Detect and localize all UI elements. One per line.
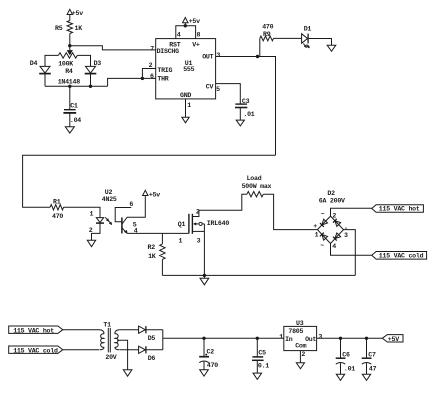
U2 pin1 label [90, 210, 94, 217]
svg-text:.01: .01 [344, 366, 355, 373]
wire secondary top to D5 [120, 329, 139, 331]
U2 emitter [122, 228, 138, 235]
pin 4 label [177, 31, 181, 38]
svg-text:2: 2 [196, 209, 200, 216]
capacitor C3 [235, 98, 255, 120]
svg-text:1K: 1K [148, 253, 156, 260]
svg-text:0.1: 0.1 [258, 362, 269, 369]
U3 com stub [300, 351, 305, 363]
pin 5 label [216, 86, 220, 93]
svg-text:1: 1 [279, 334, 283, 341]
svg-text:C2: C2 [207, 349, 215, 356]
svg-text:3: 3 [344, 232, 348, 239]
wire D5 D6 join [146, 330, 163, 350]
pin 8 label [197, 31, 201, 38]
wire R4 left to D4 [45, 55, 58, 66]
svg-text:+5v: +5v [149, 191, 160, 198]
rail junction C5 [256, 337, 259, 340]
svg-text:7805: 7805 [288, 328, 303, 335]
svg-text:R4: R4 [65, 68, 73, 75]
wire OUT corner down [258, 57, 276, 156]
power +5v (U1 supply) [183, 18, 201, 26]
svg-text:THR: THR [157, 76, 168, 83]
wire OUT loop to R1 [23, 155, 276, 207]
svg-text:115 VAC cold: 115 VAC cold [379, 253, 424, 260]
svg-text:~: ~ [321, 211, 325, 218]
ground C2 [200, 370, 209, 376]
ground U3 [296, 363, 304, 369]
svg-text:4: 4 [332, 243, 336, 250]
diode D3 [85, 60, 102, 74]
svg-text:Load: Load [247, 175, 262, 182]
ground rail wire [162, 274, 355, 276]
svg-text:+5v: +5v [72, 10, 83, 17]
svg-text:D6: D6 [148, 355, 156, 362]
wire R2 to rail [161, 259, 163, 275]
flag +5V output [382, 335, 403, 343]
power +5v (U2 collector) [143, 190, 161, 198]
svg-text:D1: D1 [304, 25, 312, 32]
capacitor C6 [336, 338, 356, 374]
svg-text:Out: Out [305, 336, 316, 343]
ground U2 LED [87, 240, 95, 246]
T1 secondary [115, 330, 120, 350]
+5 rail wire left [163, 337, 284, 339]
wire U2 LED to ground [92, 223, 101, 240]
Q1 drain lead [192, 194, 247, 216]
U3 labels [279, 320, 322, 350]
rail junction C2 [202, 337, 205, 340]
diode D4 [30, 60, 51, 74]
U1 labels [157, 41, 214, 99]
D2 diode bottom-left arm [320, 233, 328, 241]
svg-text:R9: R9 [263, 31, 271, 38]
ground Q1 source [200, 275, 209, 284]
potentiometer R4 wiper arrow [68, 46, 72, 55]
svg-text:Q1: Q1 [178, 221, 186, 228]
pin 2 label [149, 62, 153, 69]
svg-text:2: 2 [89, 227, 93, 234]
potentiometer R4 [58, 53, 81, 86]
wire CV to C3 [216, 84, 241, 104]
LED D1 [302, 25, 312, 48]
wire bridge bottom to cold flag [331, 244, 372, 256]
wire R5 to node A [69, 34, 71, 46]
svg-text:V+: V+ [192, 41, 200, 48]
svg-text:+: + [313, 223, 317, 230]
svg-text:6A 200V: 6A 200V [319, 197, 345, 204]
rail junction Q1 source [203, 274, 206, 277]
diode D5 [139, 326, 156, 342]
rail junction C6 [339, 337, 342, 340]
svg-text:115 VAC hot: 115 VAC hot [13, 327, 54, 334]
T1 value label [105, 354, 116, 361]
svg-text:470: 470 [262, 24, 273, 31]
wire R1 to U2 LED [64, 207, 100, 217]
wire R4 right to D3 [77, 55, 90, 66]
svg-text:8: 8 [197, 31, 201, 38]
diode D6 [139, 346, 156, 362]
power +5v (R5 supply) [67, 9, 83, 20]
wire D3 to node B [90, 74, 92, 87]
svg-text:470: 470 [52, 213, 63, 220]
transformer T1 label [103, 322, 111, 329]
op-amp U1 555 box [156, 39, 216, 99]
wire cold flag to T1 [63, 349, 99, 351]
ground C5 [253, 373, 262, 379]
ground D1 [327, 45, 336, 51]
svg-text:47: 47 [369, 366, 377, 373]
pin 6 label [150, 73, 154, 80]
svg-text:2: 2 [301, 351, 305, 358]
wire bridge right to rail [344, 230, 356, 276]
transistor Q1 gate bar [188, 214, 190, 234]
U1 GND stub [186, 99, 192, 117]
Q1 pin2 label [196, 209, 200, 216]
svg-text:-: - [344, 225, 348, 232]
wire OUT [216, 56, 258, 58]
svg-text:C7: C7 [368, 351, 376, 358]
svg-text:3: 3 [216, 52, 220, 59]
capacitor C1 [63, 86, 81, 126]
svg-text:500W max: 500W max [242, 183, 272, 190]
svg-text:C1: C1 [70, 103, 78, 110]
svg-text:+5V: +5V [388, 336, 399, 343]
svg-text:2: 2 [149, 62, 153, 69]
svg-text:1: 1 [179, 237, 183, 244]
Q1 body arrow [194, 222, 205, 231]
resistor R9 [260, 24, 274, 41]
wire R9 to D1 [274, 37, 302, 39]
wire D4 to node B [44, 74, 46, 87]
resistor Load [242, 175, 272, 197]
U2 collector [122, 197, 145, 229]
node B junction C1 [68, 85, 71, 88]
resistor R2 branch [161, 233, 163, 244]
bridge rectifier D2 diamond [317, 216, 343, 243]
ground C7 [362, 374, 370, 380]
svg-text:TRIG: TRIG [157, 67, 172, 74]
bracket junction [184, 24, 187, 27]
wire U2 emitter to Q1 gate [127, 232, 188, 234]
svg-text:4N25: 4N25 [102, 196, 117, 203]
svg-text:+5v: +5v [189, 18, 200, 25]
svg-text:R2: R2 [148, 244, 156, 251]
wire hot flag to T1 [63, 329, 99, 331]
svg-text:2: 2 [332, 212, 336, 219]
svg-text:115 VAC hot: 115 VAC hot [379, 206, 420, 213]
ground C6 [336, 374, 344, 380]
svg-text:20V: 20V [105, 354, 116, 361]
wire THR junction to TRIG [142, 69, 155, 79]
svg-text:R1: R1 [53, 199, 61, 206]
svg-text:3: 3 [197, 237, 201, 244]
svg-text:100K: 100K [58, 61, 73, 68]
regulator U3 box [284, 326, 317, 350]
U2 base lead pin6 [115, 201, 133, 222]
svg-text:U3: U3 [296, 320, 304, 327]
T1 core [108, 328, 110, 353]
svg-text:C5: C5 [258, 349, 266, 356]
wire D1 to ground [309, 39, 332, 46]
resistor R5 [55, 21, 82, 34]
resistor R1 [50, 199, 64, 220]
wire bridge top to hot flag [331, 208, 372, 216]
T1 primary [99, 330, 104, 350]
svg-text:.01: .01 [243, 111, 254, 118]
ground U1 [182, 117, 189, 123]
svg-text:D3: D3 [94, 60, 102, 67]
capacitor C7 [362, 338, 377, 374]
capacitor C5 [252, 338, 269, 373]
U2 pin2 label [89, 227, 93, 234]
svg-text:115 VAC cold: 115 VAC cold [13, 347, 58, 354]
svg-text:CV: CV [206, 83, 214, 90]
U2 light arrows [105, 217, 112, 224]
svg-text:4: 4 [177, 31, 181, 38]
svg-text:1K: 1K [75, 25, 83, 32]
svg-text:.04: .04 [70, 117, 81, 124]
wire secondary bottom to D6 [120, 349, 139, 351]
Q1 source lead [192, 231, 204, 275]
Q1 labels [178, 220, 230, 245]
node A junction [68, 44, 71, 47]
rail junction C7 [365, 337, 368, 340]
svg-text:D4: D4 [30, 60, 38, 67]
svg-text:Com: Com [295, 343, 306, 350]
svg-text:DISCHG: DISCHG [157, 48, 180, 55]
svg-text:7: 7 [150, 46, 154, 53]
svg-text:470: 470 [207, 362, 218, 369]
svg-text:1: 1 [90, 210, 94, 217]
svg-text:6: 6 [150, 73, 154, 80]
wire center tap [117, 340, 128, 369]
svg-text:D5: D5 [148, 335, 156, 342]
Q1 channel [191, 214, 193, 234]
svg-text:GND: GND [180, 92, 191, 99]
svg-text:~: ~ [320, 242, 324, 249]
D2 diode bottom-right arm [333, 233, 341, 241]
node B rail [45, 85, 108, 87]
optocoupler U2 labels [102, 189, 117, 203]
flag 115 VAC cold (right) [372, 252, 427, 260]
wire V+ RST bracket [176, 26, 196, 39]
ground C1 [65, 127, 74, 133]
+5 rail wire right [317, 337, 383, 339]
THR junction [141, 77, 144, 80]
D2 diode top-right arm [333, 219, 341, 227]
ground C3 [236, 120, 244, 126]
flag 115 VAC hot (left) [9, 326, 63, 334]
svg-text:6: 6 [129, 201, 133, 208]
resistor R2 [148, 244, 166, 260]
svg-text:1N4148: 1N4148 [58, 79, 81, 86]
svg-text:1: 1 [315, 231, 319, 238]
flag 115 VAC hot (right) [372, 205, 424, 213]
U2 LED [96, 218, 104, 224]
svg-text:C6: C6 [342, 351, 350, 358]
capacitor C2 [199, 338, 218, 369]
svg-text:1: 1 [187, 102, 191, 109]
svg-text:T1: T1 [103, 322, 111, 329]
U2 phototransistor bar [121, 217, 123, 233]
svg-text:OUT: OUT [202, 53, 213, 60]
svg-text:C3: C3 [242, 98, 250, 105]
ground center tap [123, 370, 132, 376]
wire R9 branch [259, 38, 261, 56]
OUT junction [256, 55, 259, 58]
svg-text:IRL640: IRL640 [207, 220, 230, 227]
pin 3 label [216, 52, 220, 59]
svg-text:R5: R5 [55, 25, 63, 32]
svg-text:3: 3 [318, 334, 322, 341]
wire Load to bridge+ [263, 194, 317, 229]
svg-text:D2: D2 [327, 190, 335, 197]
svg-text:U2: U2 [105, 189, 113, 196]
D2 diode top-left arm [320, 219, 328, 227]
flag 115 VAC cold (left) [9, 346, 63, 354]
pin 7 label [150, 46, 154, 53]
node B junction D3 [89, 85, 92, 88]
wire node B to THR [108, 78, 156, 86]
svg-text:555: 555 [183, 66, 194, 73]
wire node A to U1 pin7 [70, 46, 156, 50]
svg-text:5: 5 [216, 86, 220, 93]
D2 labels [313, 190, 348, 250]
svg-text:In: In [285, 336, 293, 343]
